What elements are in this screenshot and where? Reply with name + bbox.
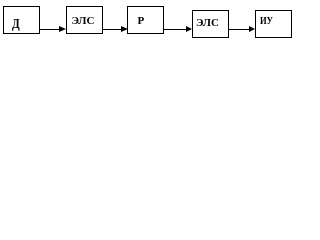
arrowhead into ELS1 [59, 26, 66, 32]
block IU [255, 10, 292, 38]
wire ELS1 to R [103, 29, 121, 30]
wire ELS2 to IU [229, 29, 249, 30]
label ELS1 [72, 16, 95, 27]
arrowhead into R [121, 26, 128, 32]
label IU [260, 16, 273, 27]
wire R to ELS2 [164, 29, 186, 30]
block R [127, 6, 164, 34]
label R [138, 16, 145, 27]
arrowhead into IU [249, 26, 255, 32]
wire D to ELS1 [40, 29, 60, 30]
block ELS2 [192, 10, 229, 38]
label ELS2 [196, 18, 219, 29]
label D [12, 18, 20, 32]
block D (sensor) [3, 6, 40, 34]
arrowhead into ELS2 [186, 26, 192, 32]
block ELS1 [66, 6, 103, 34]
